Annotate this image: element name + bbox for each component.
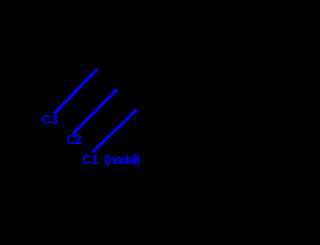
wire: leader line to capacitor C3 xyxy=(0,0,249,245)
capacitor label C3 xyxy=(42,113,59,126)
capacitor label C1 (nodal) xyxy=(82,153,139,166)
capacitor label C2 xyxy=(66,133,80,146)
wire: leader line to capacitor C2 xyxy=(0,0,249,245)
wire: leader line to capacitor C1 xyxy=(0,0,249,245)
